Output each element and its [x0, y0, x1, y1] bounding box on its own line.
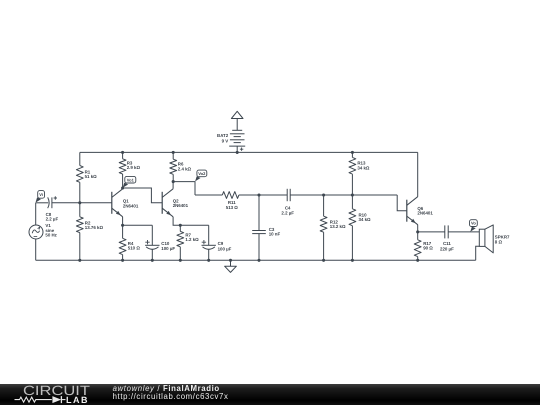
node Vo — [470, 220, 478, 232]
label R1 value — [85, 169, 98, 179]
node R12 top junction — [322, 193, 325, 196]
capacitor C10 — [145, 225, 159, 260]
capacitor C11 — [418, 225, 480, 238]
svg-text:13.2 kΩ: 13.2 kΩ — [330, 224, 346, 229]
node Vo2 — [195, 170, 207, 181]
label R7 value — [185, 232, 199, 242]
svg-text:Vo1: Vo1 — [127, 177, 135, 182]
svg-text:Vi: Vi — [39, 192, 43, 197]
svg-text:BAT2: BAT2 — [217, 133, 229, 138]
resistor R3 — [119, 152, 126, 188]
resistor R7 — [177, 225, 184, 260]
svg-text:34 kΩ: 34 kΩ — [359, 217, 372, 222]
node R6 top junction — [172, 151, 175, 154]
battery BAT2 — [229, 111, 245, 152]
resistor R10 — [349, 195, 356, 260]
capacitor C3 — [252, 195, 266, 260]
node Vi — [36, 191, 45, 203]
transistor Q1 — [112, 189, 123, 217]
svg-text:Vo: Vo — [471, 221, 476, 226]
wire top supply rail — [80, 151, 418, 153]
svg-text:2N6401: 2N6401 — [173, 203, 189, 208]
svg-text:9 V: 9 V — [222, 138, 229, 143]
node ground junction — [229, 259, 232, 262]
svg-text:2.4 kΩ: 2.4 kΩ — [178, 166, 192, 171]
logo wordmark CIRCUIT — [23, 383, 90, 398]
capacitor C4 — [287, 189, 397, 201]
node R12 bottom junction — [322, 259, 325, 262]
svg-text:220 µF: 220 µF — [440, 246, 454, 251]
svg-text:2.2 µF: 2.2 µF — [281, 211, 294, 216]
label R2 value — [85, 220, 104, 230]
node Q6 emitter junction — [416, 230, 419, 233]
wire Q1 emitter to C10 — [123, 224, 153, 226]
ground — [225, 260, 237, 272]
svg-text:2N6401: 2N6401 — [123, 203, 139, 208]
label C9 value — [218, 241, 232, 251]
wire Q6 emitter — [417, 225, 419, 232]
label R12 value — [330, 219, 346, 229]
footer bar — [0, 384, 540, 405]
svg-text:2.2 µF: 2.2 µF — [46, 217, 59, 222]
svg-text:LAB: LAB — [66, 395, 89, 405]
wire mid to Q6 base — [397, 195, 407, 211]
capacitor C8 — [36, 196, 112, 208]
label C3 value — [269, 227, 281, 237]
wire speaker return — [476, 246, 480, 260]
node C9 bottom junction — [207, 259, 210, 262]
resistor R4 — [119, 225, 126, 260]
svg-text:2.9 kΩ: 2.9 kΩ — [127, 165, 141, 170]
node C10 bottom junction — [151, 259, 154, 262]
svg-text:1.2 kΩ: 1.2 kΩ — [185, 237, 199, 242]
label R6 value — [178, 162, 192, 172]
speaker SPKR7 — [479, 225, 493, 253]
svg-text:34 kΩ: 34 kΩ — [357, 165, 370, 170]
node R1 base junction — [78, 201, 81, 204]
svg-text:13.76 kΩ: 13.76 kΩ — [85, 225, 104, 230]
node R10 bottom junction — [351, 259, 354, 262]
wire Q6 collector — [417, 152, 419, 196]
label R3 value — [127, 160, 141, 170]
wire Q2 emitter — [173, 217, 209, 226]
resistor R17 — [414, 232, 421, 260]
label R13 value — [357, 161, 370, 171]
label R11 value — [226, 200, 239, 210]
label C11 value — [440, 241, 454, 251]
resistor R12 — [320, 195, 327, 260]
svg-text:8 Ω: 8 Ω — [495, 240, 503, 245]
svg-text:10 nF: 10 nF — [269, 232, 281, 237]
node R4 bottom junction — [121, 259, 124, 262]
label V1 value — [45, 223, 57, 238]
node R13 bottom junction — [351, 193, 354, 196]
label SPKR7 value — [495, 234, 510, 244]
svg-text:513 Ω: 513 Ω — [226, 205, 239, 210]
svg-text:2N6401: 2N6401 — [417, 211, 433, 216]
transistor Q6 — [407, 197, 418, 225]
node Q1 emitter junction — [121, 224, 124, 227]
svg-text:Vo2: Vo2 — [198, 171, 206, 176]
resistor R11 — [195, 192, 287, 199]
svg-text:90 Ω: 90 Ω — [423, 246, 433, 251]
svg-text:SPKR7: SPKR7 — [495, 234, 510, 239]
transistor Q2 — [162, 189, 173, 217]
label Q6 value — [417, 206, 433, 216]
node Vo1 — [123, 176, 136, 187]
wire V1 top lead — [35, 203, 37, 225]
wire Q1 emitter — [122, 217, 124, 226]
wire Q1 collector to Q2 base — [123, 188, 163, 203]
label BAT2 value — [217, 133, 229, 144]
svg-text:51 kΩ: 51 kΩ — [85, 174, 98, 179]
label Q1 value — [123, 199, 139, 209]
resistor R2 — [76, 203, 83, 260]
node battery junction — [236, 151, 239, 154]
wire Q1 collector — [122, 188, 124, 189]
wire Q2 collector — [172, 182, 174, 189]
voltage source V1 — [29, 225, 43, 239]
node R17 bottom junction — [416, 259, 419, 262]
node Q2 collector junction — [172, 180, 175, 183]
label C10 value — [161, 241, 175, 251]
label Q2 value — [173, 198, 189, 208]
node C3 top junction — [257, 193, 260, 196]
label C8 value — [46, 212, 59, 222]
resistor R13 — [349, 152, 356, 195]
wire Vo2 jog — [173, 182, 195, 195]
svg-text:510 Ω: 510 Ω — [128, 246, 141, 251]
node R2 bottom junction — [78, 259, 81, 262]
logo wordmark LAB — [66, 395, 89, 405]
wire bottom ground rail — [36, 259, 476, 261]
node R7 top junction — [179, 224, 182, 227]
resistor R1 — [76, 152, 83, 202]
node R3 top junction — [121, 151, 124, 154]
svg-text:50 Hz: 50 Hz — [45, 233, 57, 238]
wire V1 bottom lead — [35, 239, 37, 260]
label R17 value — [423, 241, 433, 251]
node R13 top junction — [351, 151, 354, 154]
svg-text:100 µF: 100 µF — [218, 246, 232, 251]
node C3 bottom junction — [257, 259, 260, 262]
node R7 bottom junction — [179, 259, 182, 262]
label C4 value — [281, 206, 294, 216]
node Q1 collector junction — [121, 186, 124, 189]
logo resistor-diode glyph — [15, 396, 66, 403]
label R10 value — [359, 213, 372, 223]
label R4 value — [128, 241, 141, 251]
capacitor C9 — [202, 225, 216, 260]
svg-text:100 µF: 100 µF — [161, 246, 175, 251]
resistor R6 — [170, 152, 177, 181]
